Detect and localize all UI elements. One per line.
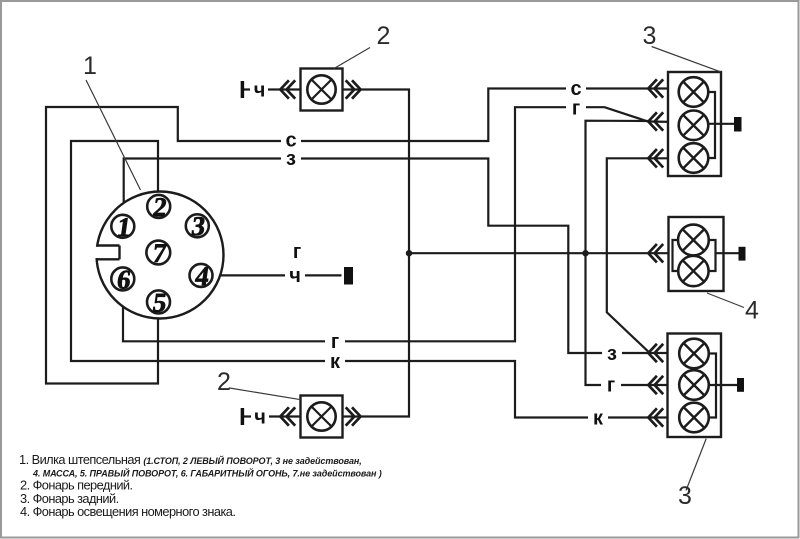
- wire label г (bottom cluster): [601, 375, 621, 397]
- mass terminal top cluster: [734, 117, 742, 132]
- wire label ч (pin 4 mass wire): [285, 265, 305, 287]
- svg-text:4. Фонарь освещения номерного: 4. Фонарь освещения номерного знака.: [20, 504, 235, 519]
- connector arrows bottom cluster: [648, 344, 663, 427]
- svg-text:ч: ч: [289, 265, 301, 287]
- wire net С: pin 5 loop to top rear lamp cluster: [46, 89, 679, 384]
- connector arrows at front lamp top: [280, 80, 360, 98]
- svg-text:г: г: [572, 98, 580, 120]
- pin 7: [146, 238, 170, 268]
- wire: front marker lamps vertical bus: [242, 90, 409, 417]
- connector arrows at front lamp bottom: [280, 407, 360, 425]
- internal ground bus of bottom cluster: [709, 354, 738, 418]
- svg-text:ч: ч: [254, 80, 266, 102]
- callout label 4 with leader: [707, 293, 759, 325]
- wire net З: pin 1 to rear lamp clusters: [124, 159, 680, 354]
- wire net Г branch: top cluster middle lamp down to bottom cluster middle lamp: [586, 121, 680, 385]
- wire label г (top run): [566, 98, 586, 120]
- svg-text:2: 2: [217, 368, 231, 396]
- pin 2: [147, 192, 170, 222]
- front lamp HL1 (фонарь передний, поз.2) top: [242, 69, 342, 111]
- wire label ч (front lamp top): [250, 80, 268, 102]
- legend text: [19, 452, 382, 519]
- callout label 3 (top cluster) with leader: [643, 22, 721, 72]
- junction dot on front lamp bus: [406, 250, 412, 256]
- front lamp HL2 (фонарь передний, поз.2) bottom: [242, 396, 342, 438]
- wire label к (lower left run): [325, 351, 345, 373]
- wire label з (bottom cluster): [602, 343, 622, 365]
- callout label 2 (bottom front lamp) with leader: [217, 368, 301, 400]
- license plate lamp cluster (поз.4): [669, 217, 724, 291]
- pin 1: [111, 212, 134, 242]
- svg-text:к: к: [593, 408, 604, 430]
- junction dot on net Г at license-plate wire: [582, 250, 588, 256]
- wire: license plate lamp feed: [409, 252, 673, 254]
- pin 6: [111, 264, 134, 294]
- wire label г (floating, license feed): [293, 241, 301, 263]
- callout label 2 (top front lamp) with leader: [334, 22, 390, 69]
- wire label ч (front lamp bottom): [251, 407, 269, 429]
- svg-text:к: к: [330, 351, 341, 373]
- svg-text:3: 3: [643, 22, 657, 50]
- svg-text:г: г: [607, 375, 615, 397]
- svg-text:г: г: [293, 241, 301, 263]
- wire net Ч: pin 4 to chassis mass: [213, 274, 342, 276]
- connector arrows top cluster: [648, 79, 663, 167]
- connector body U1 (вилка штепсельная, поз.1): [94, 192, 224, 319]
- pin 3: [186, 211, 209, 241]
- wire net Г: pin 6 to marker lamps: [123, 107, 679, 341]
- svg-text:з: з: [286, 148, 296, 170]
- internal ground bus of top cluster: [708, 92, 734, 158]
- pin 5: [147, 287, 170, 317]
- svg-text:1: 1: [83, 52, 97, 80]
- wire label з (left run): [281, 148, 301, 170]
- svg-text:4: 4: [745, 297, 759, 325]
- wire label с (left run): [281, 130, 301, 152]
- svg-text:ч: ч: [254, 407, 266, 429]
- wire label г (lower left run): [325, 331, 345, 353]
- wire net З branch: top cluster bottom lamp to bottom cluster top lamp: [607, 158, 679, 351]
- svg-text:з: з: [607, 343, 617, 365]
- svg-text:3: 3: [678, 482, 692, 510]
- mass terminal at plug wire: [344, 267, 353, 285]
- callout label 1 with leader: [83, 52, 140, 190]
- svg-text:2: 2: [377, 22, 391, 50]
- mass terminal license plate cluster: [739, 247, 746, 261]
- internal buses of license plate cluster: [673, 240, 739, 271]
- rear lamp cluster bottom (фонарь задний, поз.3): [668, 334, 722, 438]
- pin 4: [190, 261, 213, 291]
- wire label с (top run): [566, 78, 586, 100]
- svg-text:г: г: [331, 331, 339, 353]
- callout label 3 (bottom cluster) with leader: [678, 439, 706, 510]
- connector arrow license plate cluster: [648, 244, 663, 262]
- mass terminal bottom cluster: [737, 378, 744, 392]
- wire net К: pin 2 to bottom rear lamp cluster: [71, 141, 680, 418]
- rear lamp cluster top (фонарь задний, поз.3): [668, 72, 721, 176]
- wire label к (bottom cluster): [588, 408, 608, 430]
